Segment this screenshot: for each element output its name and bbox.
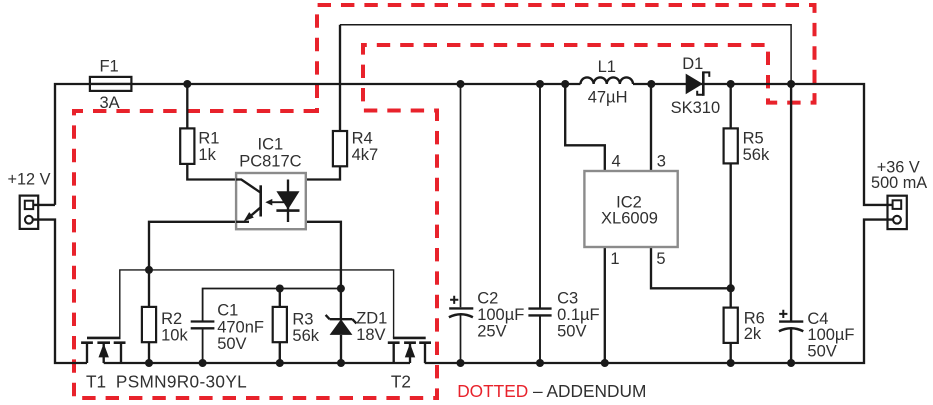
svg-text:0.1µF: 0.1µF xyxy=(557,306,600,324)
svg-text:T1: T1 xyxy=(86,371,106,391)
svg-text:IC1: IC1 xyxy=(258,136,284,154)
svg-text:50V: 50V xyxy=(217,335,246,353)
svg-text:C1: C1 xyxy=(217,302,238,320)
svg-text:18V: 18V xyxy=(356,326,385,344)
svg-text:100µF: 100µF xyxy=(807,326,854,344)
svg-text:R4: R4 xyxy=(352,129,373,147)
svg-text:47µH: 47µH xyxy=(588,89,628,107)
svg-text:100µF: 100µF xyxy=(477,306,524,324)
svg-text:XL6009: XL6009 xyxy=(601,210,658,228)
svg-text:56k: 56k xyxy=(743,146,770,164)
svg-text:5: 5 xyxy=(656,250,665,268)
svg-text:R1: R1 xyxy=(198,129,219,147)
svg-text:3A: 3A xyxy=(100,94,120,112)
svg-text:25V: 25V xyxy=(477,322,506,340)
svg-text:2k: 2k xyxy=(744,325,762,343)
svg-text:PSMN9R0-30YL: PSMN9R0-30YL xyxy=(116,371,247,391)
svg-text:R2: R2 xyxy=(161,310,182,328)
svg-text:F1: F1 xyxy=(99,57,118,75)
svg-text:+12 V: +12 V xyxy=(7,171,50,189)
svg-text:470nF: 470nF xyxy=(217,318,264,336)
svg-text:PC817C: PC817C xyxy=(239,153,301,171)
svg-text:C4: C4 xyxy=(807,310,828,328)
svg-text:T2: T2 xyxy=(391,371,411,391)
svg-text:500 mA: 500 mA xyxy=(871,174,927,192)
svg-text:C3: C3 xyxy=(557,289,578,307)
svg-text:D1: D1 xyxy=(682,55,703,73)
svg-text:4k7: 4k7 xyxy=(352,146,379,164)
svg-text:ZD1: ZD1 xyxy=(356,310,387,328)
svg-text:10k: 10k xyxy=(161,327,188,345)
svg-text:L1: L1 xyxy=(598,58,616,76)
svg-text:R5: R5 xyxy=(743,129,764,147)
svg-text:DOTTED – ADDENDUM: DOTTED – ADDENDUM xyxy=(457,381,646,401)
svg-text:1: 1 xyxy=(610,250,619,268)
svg-text:SK310: SK310 xyxy=(671,99,721,117)
svg-text:4: 4 xyxy=(612,153,621,171)
svg-text:50V: 50V xyxy=(557,322,586,340)
svg-text:56k: 56k xyxy=(292,327,319,345)
svg-text:C2: C2 xyxy=(477,289,498,307)
svg-text:1k: 1k xyxy=(198,146,216,164)
svg-text:R3: R3 xyxy=(292,310,313,328)
svg-text:3: 3 xyxy=(657,153,666,171)
svg-text:50V: 50V xyxy=(807,343,836,361)
